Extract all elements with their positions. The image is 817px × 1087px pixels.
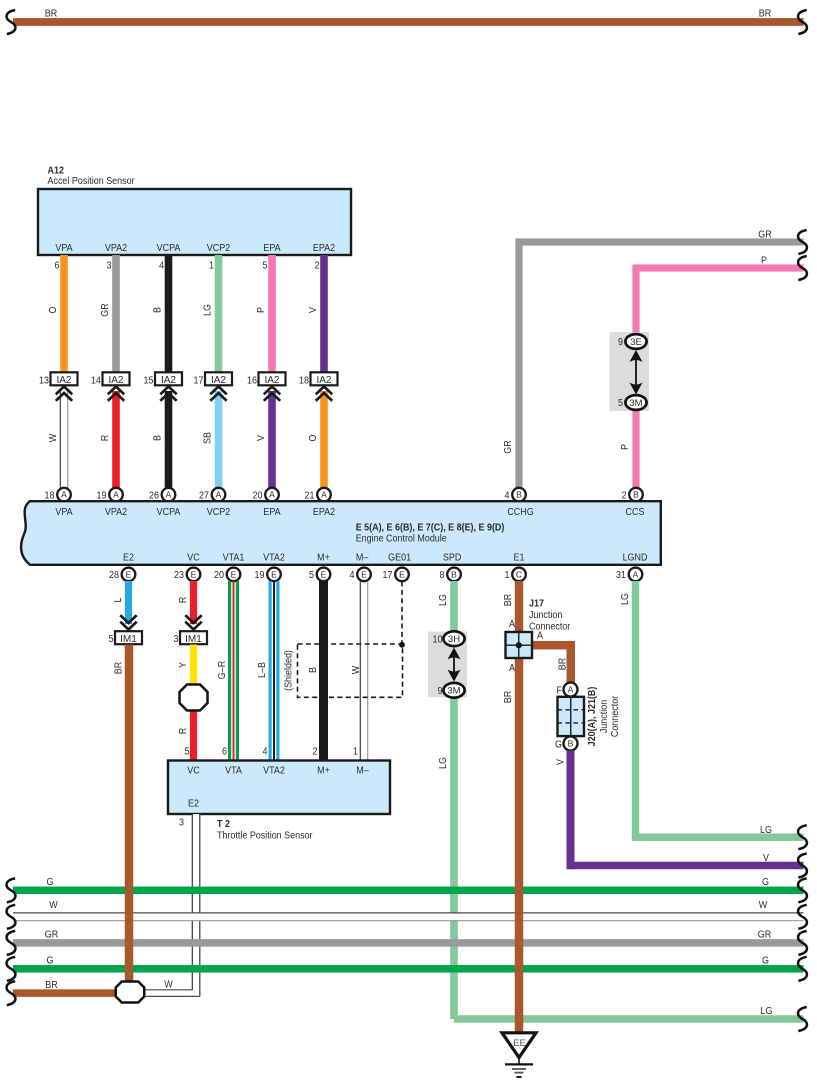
svg-text:31: 31 [616, 570, 626, 582]
svg-text:P: P [620, 444, 632, 450]
svg-text:CCS: CCS [626, 506, 645, 518]
svg-text:B: B [633, 490, 639, 500]
svg-text:GR: GR [45, 929, 58, 941]
svg-text:J20(A), J21(B): J20(A), J21(B) [587, 687, 599, 747]
svg-text:9: 9 [438, 685, 443, 697]
svg-text:R: R [178, 597, 190, 603]
svg-text:B: B [152, 435, 164, 441]
svg-text:BR: BR [557, 658, 569, 670]
svg-text:GR: GR [100, 303, 112, 316]
svg-text:E: E [321, 570, 327, 580]
svg-text:EPA2: EPA2 [313, 242, 335, 254]
svg-text:16: 16 [247, 375, 257, 387]
svg-text:E1: E1 [514, 552, 525, 564]
svg-text:W: W [164, 979, 173, 991]
svg-text:SPD: SPD [443, 552, 461, 564]
svg-text:GR: GR [758, 229, 771, 241]
svg-text:P: P [761, 255, 767, 267]
svg-text:GR: GR [758, 929, 771, 941]
svg-text:5: 5 [309, 570, 314, 582]
svg-text:E: E [191, 570, 197, 580]
svg-text:VTA1: VTA1 [223, 552, 245, 564]
svg-text:3H: 3H [448, 634, 460, 645]
svg-text:G: G [555, 739, 562, 751]
svg-text:BR: BR [45, 8, 57, 20]
svg-text:VC: VC [187, 552, 199, 564]
svg-text:6: 6 [55, 260, 60, 272]
svg-text:EPA2: EPA2 [313, 506, 335, 518]
svg-text:VPA: VPA [55, 506, 73, 518]
svg-text:GR: GR [503, 440, 515, 453]
svg-text:L: L [113, 597, 125, 603]
svg-text:VTA2: VTA2 [263, 765, 285, 777]
svg-text:13: 13 [39, 375, 49, 387]
svg-text:2: 2 [313, 746, 318, 758]
svg-text:LG: LG [202, 304, 214, 316]
svg-text:E2: E2 [123, 552, 134, 564]
svg-text:14: 14 [91, 375, 102, 387]
svg-text:20: 20 [253, 490, 263, 502]
svg-text:17: 17 [383, 570, 393, 582]
svg-text:4: 4 [505, 490, 511, 502]
svg-text:EE: EE [513, 1038, 526, 1049]
svg-text:R: R [178, 728, 190, 734]
svg-text:VPA: VPA [55, 242, 73, 254]
svg-text:W: W [351, 665, 363, 674]
svg-text:27: 27 [199, 490, 209, 502]
svg-text:O: O [48, 306, 60, 313]
svg-text:G–R: G–R [217, 661, 229, 679]
svg-text:E: E [231, 570, 237, 580]
svg-text:VPA2: VPA2 [105, 242, 127, 254]
svg-text:M+: M+ [317, 552, 330, 564]
svg-text:20: 20 [214, 570, 224, 582]
svg-text:1: 1 [505, 570, 510, 582]
svg-text:IA2: IA2 [264, 375, 279, 386]
svg-text:T 2: T 2 [217, 818, 230, 830]
svg-text:B: B [152, 307, 164, 313]
svg-text:IA2: IA2 [161, 375, 176, 386]
svg-text:A: A [166, 490, 172, 500]
svg-text:A: A [633, 570, 639, 580]
svg-text:Y: Y [178, 661, 190, 667]
svg-text:19: 19 [255, 570, 265, 582]
svg-text:W: W [49, 899, 58, 911]
svg-text:VCP2: VCP2 [207, 242, 230, 254]
svg-text:R: R [100, 435, 112, 441]
svg-text:V: V [555, 758, 567, 764]
svg-text:B: B [451, 570, 457, 580]
svg-text:LG: LG [438, 757, 450, 769]
svg-text:23: 23 [174, 570, 184, 582]
svg-text:E: E [126, 570, 132, 580]
svg-text:W: W [48, 433, 60, 442]
svg-text:17: 17 [194, 375, 204, 387]
svg-text:G: G [762, 876, 769, 888]
svg-text:18: 18 [45, 490, 55, 502]
svg-text:BR: BR [503, 594, 515, 606]
svg-text:IM1: IM1 [185, 634, 202, 645]
svg-text:A: A [321, 490, 327, 500]
svg-text:GE01: GE01 [388, 552, 411, 564]
svg-text:3M: 3M [629, 398, 642, 409]
svg-text:2: 2 [622, 490, 627, 502]
svg-text:15: 15 [144, 375, 154, 387]
svg-text:B: B [516, 490, 522, 500]
svg-text:5: 5 [263, 260, 268, 272]
svg-text:VTA2: VTA2 [263, 552, 285, 564]
svg-text:Connector: Connector [610, 695, 622, 737]
svg-text:IM1: IM1 [120, 634, 137, 645]
svg-text:VCPA: VCPA [157, 506, 181, 518]
svg-text:5: 5 [185, 746, 190, 758]
svg-text:A: A [113, 490, 119, 500]
svg-text:VTA: VTA [225, 765, 242, 777]
svg-text:Junction: Junction [529, 609, 562, 621]
svg-text:1: 1 [353, 746, 358, 758]
svg-text:LG: LG [760, 824, 772, 836]
svg-text:E2: E2 [188, 798, 199, 810]
svg-text:3: 3 [179, 817, 184, 829]
svg-text:V: V [256, 434, 268, 440]
svg-text:E: E [399, 570, 405, 580]
svg-text:A: A [568, 685, 574, 695]
svg-text:19: 19 [97, 490, 107, 502]
svg-text:IA2: IA2 [56, 375, 71, 386]
svg-text:2: 2 [315, 260, 320, 272]
svg-text:8: 8 [440, 570, 445, 582]
svg-text:G: G [47, 955, 54, 967]
svg-text:O: O [308, 434, 320, 441]
svg-text:10: 10 [433, 634, 443, 646]
svg-text:28: 28 [109, 570, 119, 582]
svg-text:3: 3 [107, 260, 112, 272]
svg-text:Connector: Connector [529, 621, 571, 633]
svg-text:Engine Control Module: Engine Control Module [356, 533, 447, 545]
svg-text:21: 21 [305, 490, 315, 502]
svg-text:Throttle Position Sensor: Throttle Position Sensor [217, 830, 313, 842]
svg-text:P: P [256, 307, 268, 313]
svg-text:3E: 3E [630, 337, 642, 348]
svg-text:5: 5 [109, 634, 114, 646]
svg-text:E 5(A), E 6(B), E 7(C), E 8(E): E 5(A), E 6(B), E 7(C), E 8(E), E 9(D) [356, 522, 505, 534]
svg-text:B: B [568, 739, 574, 749]
svg-text:M–: M– [356, 552, 369, 564]
svg-text:EPA: EPA [263, 242, 281, 254]
svg-text:SB: SB [202, 432, 214, 444]
svg-text:1: 1 [209, 260, 214, 272]
svg-text:B: B [308, 667, 320, 673]
svg-text:IA2: IA2 [108, 375, 123, 386]
svg-text:A: A [61, 490, 67, 500]
svg-text:BR: BR [503, 691, 515, 703]
svg-text:IA2: IA2 [316, 375, 331, 386]
svg-text:M+: M+ [317, 765, 330, 777]
svg-text:A: A [509, 618, 515, 630]
svg-text:LG: LG [761, 1005, 773, 1017]
svg-text:C: C [516, 570, 522, 580]
svg-text:EPA: EPA [263, 506, 281, 518]
svg-text:IA2: IA2 [211, 375, 226, 386]
svg-text:E: E [361, 570, 367, 580]
svg-text:9: 9 [618, 336, 623, 348]
svg-text:3: 3 [174, 634, 179, 646]
svg-text:5: 5 [618, 397, 623, 409]
svg-text:V: V [308, 306, 320, 312]
svg-text:VCPA: VCPA [157, 242, 181, 254]
svg-text:A: A [216, 490, 222, 500]
svg-text:26: 26 [149, 490, 159, 502]
svg-text:CCHG: CCHG [507, 506, 533, 518]
svg-text:E: E [271, 570, 277, 580]
svg-text:VPA2: VPA2 [105, 506, 127, 518]
svg-text:BR: BR [45, 979, 57, 991]
svg-text:18: 18 [299, 375, 309, 387]
svg-text:4: 4 [263, 746, 269, 758]
svg-text:F: F [557, 685, 563, 697]
svg-text:VC: VC [187, 765, 199, 777]
svg-text:V: V [763, 852, 769, 864]
svg-text:LG: LG [620, 593, 632, 605]
svg-text:Junction: Junction [599, 700, 611, 733]
svg-text:6: 6 [222, 746, 227, 758]
svg-text:A: A [509, 662, 515, 674]
svg-text:J17: J17 [529, 598, 544, 610]
svg-text:(Shielded): (Shielded) [283, 650, 295, 691]
svg-text:L–B: L–B [257, 662, 269, 678]
svg-text:3M: 3M [447, 686, 460, 697]
svg-text:BR: BR [759, 8, 771, 20]
svg-text:BR: BR [113, 662, 125, 674]
svg-text:Accel Position Sensor: Accel Position Sensor [48, 175, 136, 187]
svg-text:A: A [537, 630, 543, 642]
svg-text:G: G [762, 955, 769, 967]
svg-text:VCP2: VCP2 [207, 506, 230, 518]
svg-text:4: 4 [159, 260, 165, 272]
svg-text:LGND: LGND [623, 552, 648, 564]
svg-text:4: 4 [350, 570, 356, 582]
svg-text:W: W [759, 899, 768, 911]
svg-text:M–: M– [356, 765, 369, 777]
svg-text:A: A [269, 490, 275, 500]
svg-text:LG: LG [438, 594, 450, 606]
svg-text:G: G [47, 876, 54, 888]
